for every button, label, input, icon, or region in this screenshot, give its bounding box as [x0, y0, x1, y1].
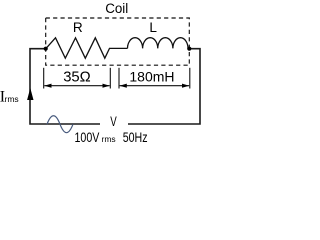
svg-text:rms: rms — [102, 134, 116, 144]
svg-text:100V: 100V — [75, 130, 101, 146]
wire : left branch and bottom-left wire — [30, 49, 100, 124]
node B : right junction dot — [187, 47, 191, 51]
svg-text:Coil: Coil — [105, 1, 128, 16]
resistor R — [46, 38, 128, 58]
wire : right branch and bottom-right wire — [128, 49, 200, 124]
svg-text:180mH: 180mH — [129, 69, 174, 85]
svg-text:35Ω: 35Ω — [63, 69, 91, 85]
svg-text:50Hz: 50Hz — [123, 130, 148, 146]
node A : left junction dot — [44, 47, 48, 51]
dimension 180mH : left tick — [118, 68, 120, 89]
svg-text:rms: rms — [5, 94, 19, 104]
svg-text:L: L — [149, 20, 157, 35]
dimension 180mH : left arrowhead — [120, 84, 127, 88]
dimension 35ohm : left tick — [43, 68, 45, 89]
dimension 180mH : right tick — [189, 68, 191, 89]
svg-text:R: R — [73, 20, 83, 35]
svg-text:V: V — [110, 115, 117, 130]
inductor L — [128, 38, 189, 49]
dimension 35ohm : right tick — [109, 68, 111, 89]
dimension 35ohm : left arrowhead — [44, 84, 51, 88]
dimension 180mH : right arrowhead — [182, 84, 189, 88]
dashed coil boundary box — [46, 18, 190, 65]
voltage source sine wave — [47, 116, 73, 133]
dimension 180mH : arrow line — [120, 85, 190, 87]
dimension 35ohm : right arrowhead — [103, 84, 110, 88]
dimension 35ohm : arrow line — [44, 85, 109, 87]
current direction arrow on left wire — [27, 88, 33, 100]
